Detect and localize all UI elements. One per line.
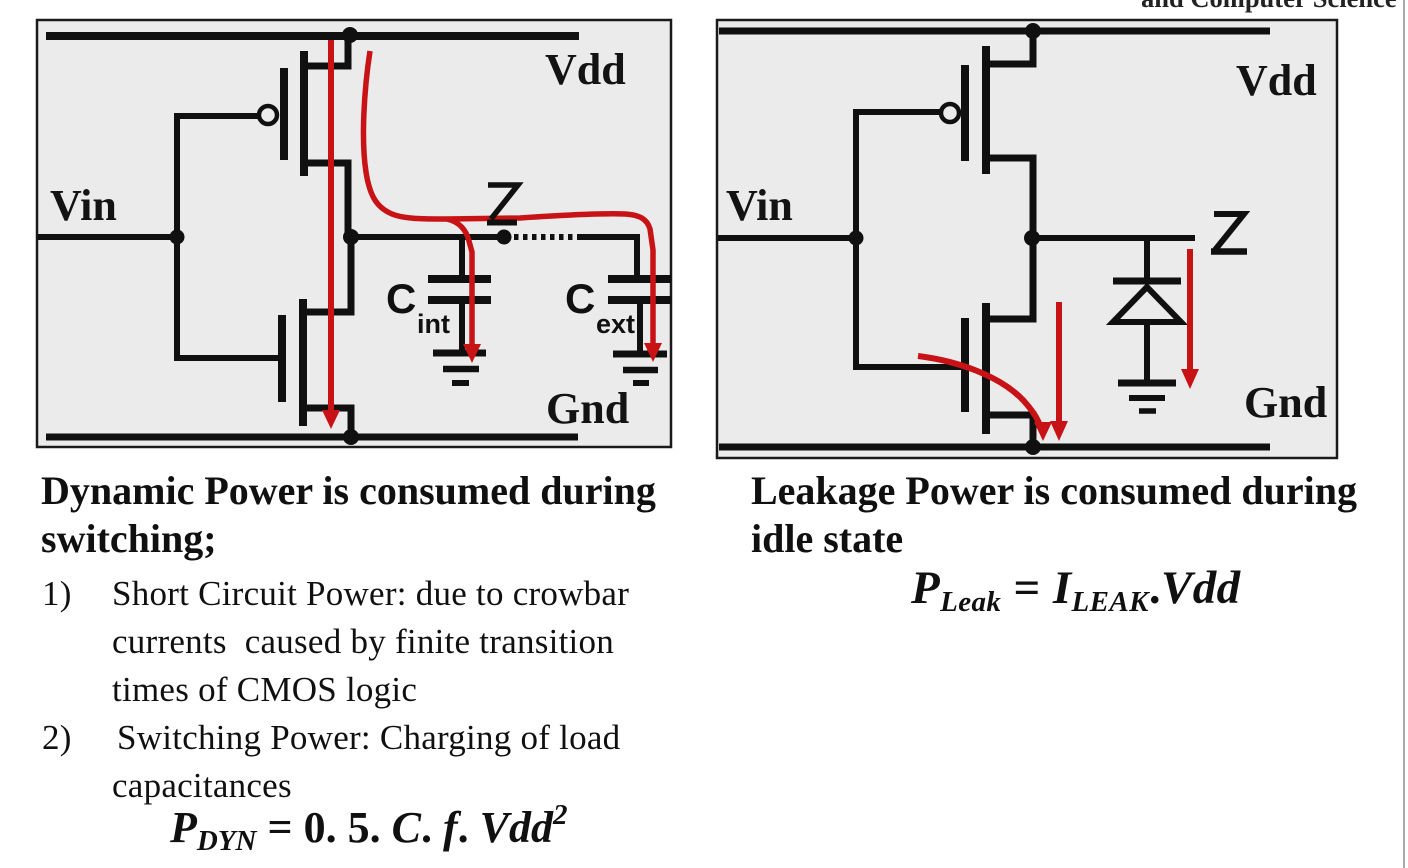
transistor M4 NMOS drain stub bbox=[983, 234, 1033, 319]
transistor M3 PMOS gate bar bbox=[961, 65, 969, 161]
node Vdd junction right bbox=[1025, 23, 1041, 39]
svg-text:Vdd: Vdd bbox=[545, 45, 626, 94]
capacitor Cint plates bbox=[428, 279, 491, 300]
node Vin junction right bbox=[849, 231, 864, 246]
transistor M1 PMOS source stub bbox=[301, 32, 348, 66]
node output junction bbox=[343, 229, 359, 245]
transistor M3 PMOS drain stub bbox=[983, 158, 1033, 242]
svg-text:Vin: Vin bbox=[50, 181, 117, 230]
Gnd rail bbox=[46, 434, 578, 441]
svg-text:C: C bbox=[386, 275, 416, 322]
left list item 2 bbox=[42, 718, 72, 758]
svg-text:Vdd: Vdd bbox=[1236, 56, 1317, 105]
svg-text:Vin: Vin bbox=[726, 181, 793, 230]
left text: title bbox=[41, 467, 656, 563]
left list item 1 bbox=[42, 574, 72, 614]
label Cint bbox=[386, 275, 450, 339]
label Vdd left bbox=[545, 45, 626, 94]
ground symbol Cext bbox=[613, 354, 667, 383]
formula P_DYN bbox=[170, 799, 567, 858]
transistor M1 PMOS bubble bbox=[259, 106, 277, 124]
diode D1 top lead bbox=[1144, 238, 1150, 280]
node Vin junction bbox=[170, 230, 185, 245]
diode D1 bottom lead bbox=[1144, 322, 1150, 380]
wire gate riser bbox=[174, 113, 180, 358]
transistor M3 PMOS channel bar bbox=[982, 46, 990, 174]
transistor M2 NMOS source stub bbox=[300, 408, 351, 440]
wire PMOS gate bbox=[174, 113, 258, 119]
transistor M3 PMOS bubble bbox=[941, 104, 959, 122]
panel frame left bbox=[37, 20, 671, 447]
wire output to Z bbox=[351, 234, 504, 240]
wire output right bbox=[1032, 235, 1195, 241]
transistor M1 PMOS drain stub bbox=[301, 163, 348, 240]
label Vin left bbox=[50, 181, 117, 230]
label Vdd right bbox=[1236, 56, 1317, 105]
wire gate riser right bbox=[853, 109, 859, 367]
capacitor Cext plates bbox=[608, 279, 671, 300]
svg-text:int: int bbox=[417, 309, 450, 339]
transistor M4 NMOS gate bar bbox=[961, 318, 969, 412]
capacitor Cext bottom lead bbox=[637, 304, 643, 352]
wire dotted segment bbox=[514, 234, 578, 240]
Vin wire right bbox=[718, 235, 856, 241]
red branch current to Cint bbox=[447, 219, 481, 363]
Vdd rail bbox=[46, 32, 579, 40]
left list item 1 line 3 bbox=[112, 670, 417, 710]
node Gnd junction right bbox=[1025, 439, 1041, 455]
wire NMOS gate right bbox=[853, 364, 968, 370]
svg-text:Gnd: Gnd bbox=[546, 384, 629, 433]
transistor M2 NMOS channel bar bbox=[299, 299, 307, 426]
node output junction right bbox=[1024, 230, 1040, 246]
left list item 1 line 2 bbox=[112, 622, 614, 662]
panel frame right bbox=[717, 20, 1337, 458]
wire PMOS gate right bbox=[853, 109, 940, 115]
slide right border line bbox=[1403, 0, 1405, 868]
wire to Cext bbox=[578, 237, 637, 276]
left list item 2 line 2 bbox=[112, 766, 292, 806]
red short-circuit current arrow bbox=[322, 40, 340, 429]
wire NMOS gate bbox=[174, 355, 286, 361]
red gate leakage curved arrow bbox=[918, 356, 1052, 441]
node Vdd junction bbox=[342, 27, 358, 43]
label Gnd right bbox=[1244, 378, 1327, 427]
ground symbol diode bbox=[1118, 383, 1176, 411]
diode D1 triangle bbox=[1113, 287, 1181, 322]
label Z right bbox=[1211, 214, 1247, 252]
red charging current curve bbox=[363, 51, 662, 362]
label Gnd left bbox=[546, 384, 629, 433]
capacitor Cint top lead bbox=[459, 237, 465, 276]
transistor M1 PMOS gate bar bbox=[280, 68, 288, 160]
right text: title bbox=[751, 467, 1357, 563]
svg-text:Gnd: Gnd bbox=[1244, 378, 1327, 427]
formula P_Leak bbox=[911, 561, 1241, 619]
transistor M4 NMOS channel bar bbox=[982, 303, 990, 434]
label Vin right bbox=[726, 181, 793, 230]
label Cext bbox=[565, 275, 635, 339]
transistor M1 PMOS channel bar bbox=[300, 51, 308, 176]
node Gnd junction bbox=[343, 429, 359, 445]
header fragment: cut-off logo text "and Computer Science" bbox=[1141, 0, 1397, 14]
red junction leakage arrow bbox=[1181, 249, 1199, 389]
transistor M4 NMOS source stub bbox=[983, 415, 1033, 449]
svg-text:C: C bbox=[565, 275, 595, 322]
ground symbol Cint bbox=[433, 353, 486, 383]
capacitor Cint bottom lead bbox=[459, 304, 465, 352]
transistor M3 PMOS source stub bbox=[983, 28, 1033, 64]
red subthreshold leakage arrow bbox=[1050, 302, 1068, 441]
diode D1 cathode bar bbox=[1113, 278, 1181, 285]
Gnd rail right bbox=[719, 444, 1270, 451]
Vdd rail right bbox=[719, 28, 1270, 35]
svg-text:ext: ext bbox=[596, 309, 635, 339]
transistor M2 NMOS drain stub bbox=[300, 234, 351, 312]
Vin wire bbox=[38, 234, 177, 240]
label Z left bbox=[487, 185, 518, 223]
transistor M2 NMOS gate bar bbox=[278, 315, 286, 402]
node Z bbox=[497, 230, 512, 245]
